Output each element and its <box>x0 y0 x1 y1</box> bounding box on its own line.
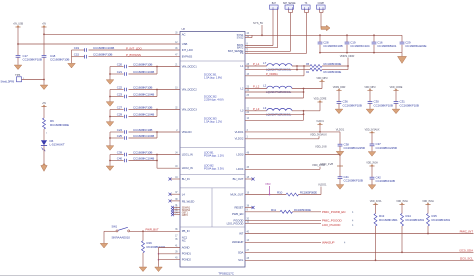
power flag VDD_3V3A for R14 <box>399 204 404 206</box>
wire to U8 pin 2 <box>157 131 180 133</box>
wire I2C0_SCL <box>245 259 474 261</box>
capacitor C21 <box>110 73 124 75</box>
svg-text:RESET: RESET <box>235 205 244 209</box>
wire C27/C29 left bus <box>109 110 111 122</box>
capacitor C17 <box>16 54 21 56</box>
capacitor C40 <box>110 160 124 162</box>
svg-text:PMIC_INT: PMIC_INT <box>460 230 474 234</box>
wire BAT1 <box>245 45 273 47</box>
svg-text:I2C0_SDA: I2C0_SDA <box>459 249 473 253</box>
wire WAKEUP row <box>245 241 321 243</box>
resistor R5 <box>310 65 322 68</box>
svg-text:VLDO1: VLDO1 <box>318 182 327 186</box>
svg-text:RC1608F300E: RC1608F300E <box>50 123 69 127</box>
power flag +5V (LED branch) <box>41 106 46 108</box>
ground for C24/C25 <box>106 146 114 151</box>
svg-text:PMIC_PGOOD: PMIC_PGOOD <box>322 219 342 223</box>
power flag VDD_3V3A for R13 <box>373 204 378 206</box>
wire R6 to D6 <box>43 129 45 140</box>
ground for C38 <box>336 151 344 156</box>
capacitor C28 (SYS rail) <box>319 35 321 42</box>
svg-text:C40: C40 <box>117 157 123 161</box>
capacitor C22 <box>110 89 124 91</box>
svg-text:VDD_MPU: VDD_MPU <box>316 77 327 80</box>
wire TP6 to +5V net <box>22 79 45 81</box>
wire R13 to bus <box>375 226 377 260</box>
capacitor C19 (series, INT_LDO) <box>72 49 85 51</box>
ground for C37 <box>368 152 376 157</box>
capacitor C15 (series, BYPASS) <box>72 56 85 58</box>
svg-text:SYS_5V: SYS_5V <box>253 21 263 25</box>
wire SYS cap ground rail <box>320 52 402 54</box>
resistor R11 <box>280 210 293 213</box>
capacitor C42 <box>371 166 373 177</box>
capacitor C27 <box>110 109 124 111</box>
connector TS <box>302 5 311 9</box>
ground for C42 <box>368 185 376 190</box>
svg-text:INT: INT <box>239 231 244 235</box>
svg-text:R11: R11 <box>271 208 276 212</box>
svg-text:VLDO2: VLDO2 <box>235 136 244 140</box>
svg-text:LDO_PGOOD: LDO_PGOOD <box>322 223 341 227</box>
svg-text:WAKEUP: WAKEUP <box>232 240 244 244</box>
wire R10 to VLDO1 <box>299 194 322 196</box>
svg-text:SW1: SW1 <box>112 225 118 229</box>
svg-text:VIN_DCDC3: VIN_DCDC3 <box>182 107 197 111</box>
svg-text:AC: AC <box>182 32 186 36</box>
wire DCDC2 feedback <box>245 97 304 99</box>
svg-text:BYPASS: BYPASS <box>182 55 193 59</box>
power flag +5V_USB <box>15 26 20 28</box>
svg-text:INT_LDO: INT_LDO <box>182 48 193 52</box>
wire BAT2 <box>245 47 278 49</box>
wire PGND2 <box>159 259 181 261</box>
svg-text:PWR_BUT: PWR_BUT <box>146 228 159 232</box>
wire C22/C23 left bus <box>109 90 111 102</box>
svg-text:CC1608KF10B: CC1608KF10B <box>23 58 42 62</box>
svg-text:VDDS_DDR: VDDS_DDR <box>340 54 355 58</box>
svg-text:FB_WLED: FB_WLED <box>182 199 195 203</box>
svg-text:CC1608KH223E: CC1608KH223E <box>405 44 426 48</box>
svg-text:RC1608F1801: RC1608F1801 <box>406 218 425 222</box>
resistor R16 <box>142 231 144 240</box>
wire LDO2_IN <box>156 161 158 169</box>
wire C20/C21 left bus <box>109 67 111 80</box>
svg-text:VIN_DCDC1: VIN_DCDC1 <box>182 64 197 68</box>
sheet border <box>0 274 474 276</box>
svg-text:VDD_CORE: VDD_CORE <box>314 98 327 101</box>
LED D6 <box>41 140 47 145</box>
svg-text:VDD_3V3AUX: VDD_3V3AUX <box>310 133 327 137</box>
wire PGND1 <box>159 253 181 255</box>
power flag +5V <box>41 26 46 28</box>
wire +5V to R6 <box>43 107 45 119</box>
resistor R6 <box>43 118 46 129</box>
ground for SW1 <box>100 243 108 248</box>
net stub VB3 (magenta) <box>269 186 271 195</box>
svg-text:USB: USB <box>182 42 188 46</box>
power flag VDD_3V3A for R15 <box>425 204 430 206</box>
svg-text:TS: TS <box>240 51 244 55</box>
capacitor C19 (SYS rail) <box>346 35 348 42</box>
svg-text:RC1005F000E: RC1005F000E <box>294 208 311 212</box>
svg-text:SYS2: SYS2 <box>237 35 244 39</box>
wire +5V vertical <box>43 27 45 55</box>
wire C22/C23 right bus <box>156 90 158 97</box>
svg-text:PGVA (typ. 1.2V): PGVA (typ. 1.2V) <box>204 154 224 158</box>
svg-text:CC1608KF10B: CC1608KF10B <box>400 103 419 107</box>
svg-text:C19: C19 <box>74 46 80 50</box>
wire C39/C40 left bus <box>109 155 111 166</box>
ground for AGND/PGND <box>155 267 163 272</box>
svg-text:C25: C25 <box>117 134 123 138</box>
svg-text:C23: C23 <box>117 93 123 97</box>
capacitor C29 (SYS rail) <box>401 35 403 42</box>
svg-text:RC1005F000E: RC1005F000E <box>300 191 317 195</box>
power flag VDD_3V3A <box>369 165 374 167</box>
svg-text:RC1608F1801: RC1608F1801 <box>379 218 398 222</box>
svg-text:PGVA (typ. 3.3V): PGVA (typ. 3.3V) <box>204 167 224 171</box>
svg-text:COMP: COMP <box>318 3 325 5</box>
svg-text:AGND: AGND <box>182 245 190 249</box>
svg-text:C21: C21 <box>117 70 123 74</box>
svg-text:CC1608KF10B: CC1608KF10B <box>376 179 395 183</box>
resistor R15 <box>427 205 429 214</box>
svg-text:LDO2_IN: LDO2_IN <box>182 166 193 170</box>
no-connect stub BU_OUT <box>245 178 253 180</box>
svg-text:CC1608KF10B: CC1608KF10B <box>133 86 152 90</box>
wire SW1 left to ground <box>104 230 116 232</box>
svg-text:P_L1: P_L1 <box>253 62 260 66</box>
svg-text:VINLDO: VINLDO <box>182 130 192 134</box>
svg-text:CC1608KF10B: CC1608KF10B <box>344 179 363 183</box>
no-connect GPIO stubs <box>173 206 181 208</box>
svg-text:CC1608KF10B: CC1608KF10B <box>93 53 112 57</box>
svg-text:VDD_3V3A: VDD_3V3A <box>366 162 378 165</box>
svg-text:C29: C29 <box>117 113 123 117</box>
svg-text:C20: C20 <box>117 63 123 67</box>
ground for C18 <box>40 85 48 90</box>
wire R14 to bus <box>401 226 403 252</box>
wire MUX_OUT row <box>245 194 286 196</box>
svg-text:CC1608KF10B: CC1608KF10B <box>374 103 393 107</box>
wire C20/C21 right bus <box>156 67 158 75</box>
svg-text:GBT0: GBT0 <box>182 214 189 217</box>
capacitor C39 <box>110 154 124 156</box>
svg-text:CC1608KC104B: CC1608KC104B <box>133 134 154 138</box>
wire AGND <box>159 247 181 249</box>
svg-text:2.25A (typ. 4.6V): 2.25A (typ. 4.6V) <box>204 98 224 102</box>
svg-text:VDD_MPU: VDD_MPU <box>364 86 375 89</box>
svg-text:CC1608KF10B: CC1608KF10B <box>133 151 152 155</box>
U8 internal divider 5 <box>180 226 245 228</box>
wire AC net to U8 pin AC <box>44 33 180 35</box>
power flag VDD_1V8 <box>339 155 341 177</box>
resistor R4 <box>310 68 322 71</box>
svg-text:VDD_CORE: VDD_CORE <box>390 86 403 89</box>
svg-text:WAKEUP: WAKEUP <box>322 241 334 245</box>
svg-text:L7: L7 <box>263 61 267 65</box>
svg-text:L2: L2 <box>263 84 267 88</box>
capacitor C18 <box>42 54 47 56</box>
power flag VLDO1 <box>317 123 322 125</box>
U8 internal divider 3 <box>180 174 245 176</box>
svg-text:RC1608F1002: RC1608F1002 <box>147 245 166 249</box>
svg-text:RC1005F000E: RC1005F000E <box>324 62 342 66</box>
svg-text:+5V: +5V <box>42 102 47 105</box>
svg-text:MUX_OUT: MUX_OUT <box>230 192 243 196</box>
power flag VDD_CORE <box>393 89 398 91</box>
svg-text:RC1005F000E: RC1005F000E <box>324 70 342 74</box>
connector BAT_SENSE <box>285 5 294 9</box>
svg-text:VDD_1V8: VDD_1V8 <box>315 144 327 148</box>
svg-text:R10: R10 <box>277 191 283 195</box>
capacitor C41 <box>338 176 343 178</box>
wire DCDC3 feedback <box>245 119 304 121</box>
off-page arrow connector <box>321 25 330 31</box>
svg-text:CC1608KC104B: CC1608KC104B <box>133 93 154 97</box>
ground for SYS caps <box>398 56 407 63</box>
wire to U8 pin 21 <box>157 66 180 68</box>
resistor R10 <box>286 193 299 196</box>
svg-text:TP6: TP6 <box>15 73 21 77</box>
svg-text:+5V_USB: +5V_USB <box>13 23 23 26</box>
svg-text:Shield_DPR6: Shield_DPR6 <box>1 81 15 84</box>
svg-text:I2C0_SCL: I2C0_SCL <box>460 257 474 261</box>
wire to U8 pin 34 <box>157 154 180 156</box>
wire C27/C29 right bus <box>156 110 158 117</box>
capacitor C37 <box>371 133 373 144</box>
wire VLDO1 net <box>245 131 340 133</box>
wire R16 to ground <box>142 253 144 267</box>
svg-text:LDO1_IN: LDO1_IN <box>182 152 193 156</box>
wire DCDC1 L1 row <box>245 65 267 67</box>
power flag VDDS_DDR <box>336 89 341 91</box>
wire I2C0_SDA <box>245 251 474 253</box>
svg-text:SCL: SCL <box>238 258 244 262</box>
wire C39/C40 right bus <box>156 155 158 161</box>
svg-text:P_L2: P_L2 <box>253 85 260 89</box>
svg-text:CC1608KC104: CC1608KC104 <box>350 44 370 48</box>
svg-text:CC1608KF10B: CC1608KF10B <box>323 44 342 48</box>
svg-text:PB_IN: PB_IN <box>182 229 190 233</box>
resistor R14 <box>401 205 403 214</box>
connector COMP <box>317 5 326 9</box>
svg-text:SKRAAAE010: SKRAAAE010 <box>112 236 131 240</box>
wire DCDC2 row B <box>245 91 304 93</box>
svg-text:CC1608KF10B: CC1608KF10B <box>343 103 362 107</box>
svg-text:LDO3: LDO3 <box>236 152 243 156</box>
wire PGOOD row <box>245 219 321 221</box>
svg-text:VDD_3V3A: VDD_3V3A <box>312 163 325 167</box>
power flag VDD_CORE <box>317 101 322 103</box>
svg-text:P_L3: P_L3 <box>253 107 260 111</box>
svg-text:CC1608KC104B: CC1608KC104B <box>133 70 154 74</box>
capacitor C16 (SYS rail) <box>373 35 375 42</box>
wire COMP to off-page arrow <box>319 10 321 13</box>
svg-text:C22: C22 <box>117 86 123 90</box>
ground for C17 <box>14 65 22 70</box>
wire SYS rail <box>245 34 402 36</box>
svg-text:VDD_3V3A: VDD_3V3A <box>396 200 408 203</box>
svg-text:L-513HUKT: L-513HUKT <box>50 143 65 147</box>
ground for C31 <box>392 109 400 114</box>
resistor R13 <box>375 205 377 214</box>
ground for C41 <box>336 185 344 190</box>
svg-text:CC1608KF10B: CC1608KF10B <box>133 128 152 132</box>
wire DCDC1 feedback <box>245 75 304 77</box>
wire USB net to U8 pin USB <box>18 43 180 45</box>
connector BAT <box>270 5 279 9</box>
svg-text:BAT: BAT <box>272 2 277 5</box>
ground for C20/C21 <box>106 80 114 85</box>
wire VDD_3V3AUX net <box>245 138 319 140</box>
svg-text:BAT2: BAT2 <box>237 46 244 50</box>
svg-text:VLDO1: VLDO1 <box>336 128 345 132</box>
wire +5V_USB vertical <box>17 27 19 55</box>
svg-text:RC1608F1801: RC1608F1801 <box>432 218 451 222</box>
svg-text:BAT_SENSE: BAT_SENSE <box>283 2 296 5</box>
svg-text:CC1608KC104B: CC1608KC104B <box>133 157 154 161</box>
ground for C39/C40 <box>106 166 114 171</box>
ground for C22/C23 <box>106 102 114 107</box>
wire VDD_1V8 net <box>245 154 340 156</box>
wire VDD_3V3A net <box>245 168 320 170</box>
capacitor C36 <box>338 90 340 101</box>
svg-text:PGND1: PGND1 <box>182 252 192 256</box>
wire R15 to bus <box>427 226 429 234</box>
wire PMIC_INT <box>245 233 474 235</box>
svg-text:CC1608KC225R: CC1608KC225R <box>344 146 366 150</box>
wire BAT_SENSE <box>245 50 291 52</box>
svg-text:C39: C39 <box>117 151 123 155</box>
ground for C27/C29 <box>106 122 114 127</box>
wire to U8 pin 32 <box>157 109 180 111</box>
svg-text:L3: L3 <box>263 106 267 110</box>
svg-text:VDD_3V3AUX: VDD_3V3AUX <box>365 128 380 131</box>
U8 internal divider 2 <box>180 146 245 148</box>
wire TS <box>245 52 307 54</box>
wire DCDC1 row B <box>245 69 310 71</box>
svg-text:VLDO1: VLDO1 <box>235 130 244 134</box>
svg-text:BU_IN: BU_IN <box>182 177 190 181</box>
no-connect stub BU_IN pin 44 <box>170 178 180 180</box>
svg-text:VDDS_DDR: VDDS_DDR <box>333 86 346 89</box>
no-connect stub FB_WLED pin 38 <box>170 200 180 202</box>
op IC U8 TPS65217C body <box>180 32 245 268</box>
svg-text:1.5A (typ. 1.2V): 1.5A (typ. 1.2V) <box>204 120 222 124</box>
svg-text:PWR_EN: PWR_EN <box>232 212 243 216</box>
svg-text:SDA: SDA <box>238 250 244 254</box>
svg-text:VLDO1: VLDO1 <box>316 120 324 123</box>
capacitor C23 <box>110 96 124 98</box>
wire DCDC3 row B <box>245 113 304 115</box>
svg-text:CC1608KF10B: CC1608KF10B <box>50 58 69 62</box>
svg-text:CC1608KF10B: CC1608KF10B <box>133 106 152 110</box>
svg-text:C27: C27 <box>117 106 123 110</box>
svg-text:C24: C24 <box>117 128 123 132</box>
svg-text:CC1608KC225R: CC1608KC225R <box>376 146 398 150</box>
ground for C36 <box>335 109 343 114</box>
svg-text:BU_OUT: BU_OUT <box>233 177 244 181</box>
svg-text:VIN_DCDC2: VIN_DCDC2 <box>182 87 197 91</box>
ground for C19/C15 <box>68 63 76 68</box>
wire C24/C25 right bus <box>156 132 158 138</box>
capacitor C24 <box>110 131 124 133</box>
wire PWR_EN row <box>245 211 280 213</box>
U8 internal divider vertical <box>211 188 213 227</box>
U8 internal divider 4 <box>180 187 245 189</box>
svg-text:LDO_PGOOD: LDO_PGOOD <box>227 222 244 226</box>
wire C24/C25 left bus <box>109 132 111 146</box>
capacitor C25 <box>110 137 124 139</box>
power flag VDD_MPU <box>367 89 372 91</box>
ground for R16 <box>139 267 147 272</box>
U8 internal divider 1 <box>180 60 245 62</box>
wire C18 to ground <box>43 57 45 84</box>
wire to U8 pin 10 <box>157 89 180 91</box>
wire SW1 to U8 PB_IN <box>130 230 180 232</box>
svg-text:P_INT_LDO: P_INT_LDO <box>126 46 142 50</box>
ground for C30 <box>366 109 374 114</box>
power flag VDD_3V3AUX <box>369 132 374 134</box>
capacitor C31 <box>395 90 397 101</box>
wire ground bus vertical <box>158 248 160 267</box>
svg-text:PMIC_POWR_EN: PMIC_POWR_EN <box>322 210 345 214</box>
svg-text:NC: NC <box>182 239 186 243</box>
svg-text:+5V: +5V <box>42 23 47 26</box>
svg-text:CC1608KB101: CC1608KB101 <box>377 44 397 48</box>
ground arrow for D6 <box>41 164 47 171</box>
capacitor C20 <box>110 66 124 68</box>
no-connect stub RESET <box>245 207 253 209</box>
svg-text:P_VDDS1: P_VDDS1 <box>266 72 278 76</box>
svg-text:LDO4: LDO4 <box>236 167 243 171</box>
capacitor C29 <box>110 116 124 118</box>
svg-text:VB3: VB3 <box>265 182 271 186</box>
capacitor C30 <box>369 90 371 101</box>
svg-text:CC1608KC104B: CC1608KC104B <box>93 46 114 50</box>
svg-text:PGND2: PGND2 <box>182 258 192 262</box>
wire D6 to ground arrow <box>43 145 45 165</box>
svg-text:1.5A (typ. 1.8V): 1.5A (typ. 1.8V) <box>204 76 222 80</box>
wire LDO_PGOOD row <box>245 223 321 225</box>
no-connect stub L4 pin 37 <box>170 193 180 195</box>
wire cap bus vertical <box>71 50 73 63</box>
wire DCDC3 L3 row <box>245 110 267 112</box>
svg-text:VDD_3V3A: VDD_3V3A <box>370 200 382 203</box>
svg-text:P_BYPASS: P_BYPASS <box>126 53 141 57</box>
svg-text:C15: C15 <box>74 53 80 57</box>
wire DCDC2 L2 row <box>245 88 267 90</box>
test point TP6 <box>17 77 22 82</box>
svg-text:CC1608KC104B: CC1608KC104B <box>133 113 154 117</box>
power flag VDD_MPU <box>319 80 324 82</box>
svg-text:VDD_3V3A: VDD_3V3A <box>422 200 434 203</box>
svg-text:CC1608KF10B: CC1608KF10B <box>133 63 152 67</box>
